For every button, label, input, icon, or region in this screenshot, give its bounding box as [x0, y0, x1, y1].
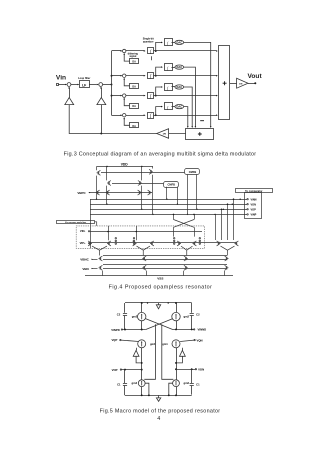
- svg-text:LF: LF: [82, 84, 86, 88]
- summer S2: [99, 83, 103, 87]
- adder A2 (feedback summation): [186, 129, 214, 140]
- wire node VOP: [122, 369, 142, 371]
- wire integrator I4 to adder: [154, 115, 217, 117]
- wire VBNC gate bus: [92, 259, 98, 261]
- wire adder A2 to feedback gain: [169, 133, 186, 135]
- svg-text:VDD: VDD: [121, 162, 129, 166]
- dither DAC box branch 4: [130, 123, 139, 128]
- node VON: [247, 204, 248, 205]
- node VINP: [247, 214, 248, 215]
- svg-text:VINP: VINP: [251, 214, 257, 217]
- ground: [158, 395, 160, 398]
- input terminal: [57, 84, 59, 86]
- svg-text:VQN: VQN: [196, 338, 202, 342]
- wire C2 left to node VINPD: [124, 316, 126, 330]
- junction rail left column: [141, 302, 143, 304]
- svg-text:1/N: 1/N: [163, 134, 167, 136]
- wire up to quantizer Q4: [156, 107, 162, 116]
- wire integrator I1 to adder: [154, 50, 217, 52]
- transconductor gm2 top-right: [172, 312, 180, 320]
- summer S1: [67, 83, 71, 87]
- wire column 4 to VSS: [224, 271, 226, 276]
- node VINND terminal: [194, 329, 195, 330]
- transconductor gm2 top-left: [138, 312, 146, 320]
- capacitor C2 left: [123, 313, 127, 315]
- wire cross couple leg A: [146, 319, 173, 330]
- wire rail to gm2 left: [141, 303, 143, 312]
- supply symbol: [158, 303, 160, 305]
- svg-text:CMFB: CMFB: [189, 170, 197, 174]
- wire VQP to gm1 left: [121, 340, 139, 341]
- gate contacts cross pair left: [173, 237, 175, 239]
- wire column 2 to VSS: [146, 271, 148, 276]
- control arrow left: [133, 350, 139, 356]
- wire S1 to loop filter: [71, 84, 78, 86]
- junction after integrator I2: [155, 75, 157, 77]
- wire cross-couple X: [174, 220, 195, 228]
- wire rail to C2 left: [124, 303, 126, 313]
- wire bus to summer B1: [112, 50, 122, 52]
- quantizer Q1: [165, 39, 173, 46]
- CMFB block 1: [185, 169, 200, 175]
- wire input bus vertical: [111, 51, 113, 115]
- svg-text:Fig.5 Macro model of the propo: Fig.5 Macro model of the proposed resona…: [100, 408, 221, 414]
- svg-text:DAC: DAC: [176, 85, 182, 89]
- label minus sign of feedback adder: [200, 120, 204, 122]
- wire cross-couple left riser: [173, 214, 175, 219]
- wire bus to summer B4: [112, 115, 122, 117]
- power rail bottom: [125, 395, 192, 397]
- dither DAC box branch 2: [130, 84, 139, 89]
- junction VOP C1: [124, 369, 126, 371]
- gate contacts cross pair right: [199, 237, 201, 239]
- svg-text:quantizer: quantizer: [143, 41, 154, 44]
- transistor NMOS cascode column 2: [142, 256, 146, 261]
- transconductor gm2 bottom-right: [173, 380, 180, 387]
- summer B3: [123, 94, 126, 97]
- node Vout terminal: [254, 82, 256, 84]
- control arrow right: [180, 350, 186, 356]
- wire ladder row 1: [103, 255, 227, 257]
- svg-text:DA: DA: [132, 105, 136, 108]
- wire output bus VOP: [90, 209, 247, 211]
- wire dither to summer B2: [124, 79, 130, 86]
- junction rail bottom: [141, 394, 143, 396]
- wire tail pair P3: [181, 246, 193, 255]
- svg-text:VINN: VINN: [251, 198, 257, 201]
- wire rail to gm2 right: [176, 303, 178, 312]
- summer B1: [123, 49, 126, 52]
- junction bus right: [240, 199, 241, 200]
- wire bus left end down: [90, 199, 92, 248]
- junction left column: [141, 362, 143, 364]
- ellipsis below integrator I1: [151, 56, 153, 60]
- junction feedback branch: [100, 133, 102, 135]
- summer B4: [123, 114, 126, 117]
- transistor input pair P3 right: [193, 241, 197, 246]
- wire CMFB2 pin B down: [177, 187, 179, 204]
- wire up to quantizer Q1: [156, 42, 162, 51]
- junction right column: [175, 362, 177, 364]
- svg-text:Vin: Vin: [56, 75, 66, 82]
- wire CMFB1 pin B down: [196, 175, 198, 210]
- wire S2 to bus: [103, 84, 112, 86]
- wire gain to Vout: [248, 83, 255, 85]
- wire cascode leg 4: [152, 175, 154, 215]
- svg-text:gm2: gm2: [132, 381, 138, 385]
- svg-text:gm2: gm2: [184, 381, 190, 385]
- wire gm2 bottom-right second leg: [169, 383, 173, 395]
- transistor input pair P4 right: [235, 241, 239, 246]
- wire summer B1 to integrator: [126, 50, 145, 52]
- DAC D3: [175, 85, 184, 89]
- wire ladder row 2: [103, 259, 227, 261]
- wire summer B2 to integrator: [126, 75, 145, 77]
- wire cascode leg 2: [106, 186, 108, 205]
- gain 1/N: [237, 78, 248, 88]
- adder A1 (summation): [219, 46, 230, 120]
- transistor NMOS cascode column 1: [99, 256, 103, 261]
- transistor NMOS source column 1: [99, 265, 103, 270]
- svg-text:gm2: gm2: [184, 315, 190, 319]
- node VOP: [247, 209, 248, 210]
- wire C1 left to rail: [124, 386, 126, 396]
- quantizer Q4: [165, 103, 173, 110]
- quantizer Q3: [165, 84, 173, 91]
- transistor input pair P4 left: [217, 241, 221, 246]
- wire DAC D1 to summing feedback: [184, 42, 211, 127]
- bias label box (input common mode): [57, 221, 95, 224]
- transistor M2 (PMOS mirror right): [152, 167, 154, 169]
- DAC D1: [175, 40, 184, 44]
- wire gm2 bottom-right to rail: [176, 387, 178, 396]
- power rail VSS: [85, 275, 233, 277]
- svg-text:VIN-: VIN-: [80, 229, 85, 233]
- transistor M1 (PMOS mirror left): [96, 167, 98, 171]
- svg-text:Fig.4 Proposed opampless reson: Fig.4 Proposed opampless resonator: [109, 284, 213, 290]
- svg-text:CMFB: CMFB: [168, 182, 176, 186]
- svg-text:DA: DA: [132, 125, 136, 128]
- junction VINPD: [124, 329, 126, 331]
- wire bus to summer B2: [112, 75, 122, 77]
- wire VIN- distribution: [90, 231, 202, 233]
- svg-text:Vin common mode bias: Vin common mode bias: [65, 222, 86, 224]
- wire DAC F2 to summer S2: [101, 87, 103, 97]
- svg-text:gm1: gm1: [150, 342, 156, 346]
- transistor input pair P1 right: [107, 241, 111, 246]
- wire output bus VINP: [90, 214, 247, 216]
- capacitor C1 left: [124, 370, 126, 383]
- wire integrator I3 to adder: [154, 95, 217, 97]
- wire fold drop 1: [215, 214, 217, 240]
- dither DAC box branch 1: [130, 59, 139, 64]
- wire dither to summer B4: [124, 118, 130, 125]
- transistor NMOS cascode column 4: [225, 256, 229, 261]
- wire bias box right: [95, 222, 97, 226]
- wire feedback branch to DAC F2: [101, 105, 103, 134]
- transistor input pair P1 left: [88, 241, 92, 246]
- wire DAC D4 to summing feedback: [184, 107, 188, 127]
- wire summer B3 to integrator: [126, 95, 145, 97]
- svg-text:VSS: VSS: [157, 277, 163, 281]
- wire gm2 top-right to VINND: [176, 321, 178, 330]
- dither DAC box branch 3: [130, 104, 139, 109]
- transistor M5 (PMOS cascode): [96, 190, 100, 195]
- wire cascode leg 3: [141, 186, 143, 210]
- svg-text:DAC: DAC: [176, 65, 182, 69]
- wire DAC D3 to summing feedback: [184, 87, 193, 127]
- wire quantizer Q3 to DAC: [172, 86, 175, 88]
- junction rail inner: [147, 302, 148, 303]
- svg-text:C2: C2: [196, 312, 200, 316]
- DAC F2: [97, 98, 106, 105]
- transistor M6 (PMOS cascode): [106, 190, 110, 195]
- wire gm1 left down: [141, 348, 143, 380]
- wire quantizer Q1 to DAC: [172, 42, 175, 44]
- transistor input pair P2 left: [133, 241, 137, 246]
- wire control left to column: [136, 356, 142, 363]
- wire VBPC gate bus: [89, 192, 152, 194]
- capacitor C2 right: [190, 313, 194, 315]
- power rail VDD: [97, 166, 154, 168]
- wire node VINND: [172, 329, 193, 331]
- wire quantizer Q4 to DAC: [172, 106, 175, 108]
- svg-text:VOP: VOP: [112, 368, 118, 372]
- svg-text:VON: VON: [198, 368, 204, 372]
- wire fold drop 3: [227, 204, 229, 240]
- transistor NMOS source column 4: [225, 265, 229, 270]
- wire summer B4 to integrator: [126, 115, 145, 117]
- junction bus branch3: [111, 95, 113, 97]
- summer B2: [123, 74, 126, 77]
- junction VDD rail: [106, 166, 107, 167]
- loop filter LF: [80, 81, 90, 88]
- transistor M4 (PMOS row2 right): [141, 167, 143, 181]
- wire spine left: [144, 324, 155, 379]
- wire gm1 right down: [176, 348, 178, 380]
- svg-text:Fig.3 Conceptual diagram of an: Fig.3 Conceptual diagram of an averaging…: [64, 152, 257, 158]
- wire control right to column: [176, 356, 182, 363]
- quantizer Q2: [165, 64, 173, 71]
- wire cross-couple right drop: [194, 227, 196, 236]
- wire dither to summer B1: [124, 54, 130, 61]
- svg-text:DAC: DAC: [176, 41, 182, 45]
- node VQP terminal: [120, 339, 121, 340]
- svg-text:C1: C1: [117, 382, 121, 386]
- wire column 3 to VSS: [183, 271, 185, 276]
- transistor input pair P2 right: [150, 241, 154, 246]
- wire adder to gain: [230, 83, 236, 85]
- svg-text:signal: signal: [129, 55, 136, 58]
- integrator I1: [148, 48, 154, 54]
- wire column 1 to VSS: [102, 271, 104, 276]
- wire tail pair P2: [137, 246, 151, 255]
- junction bus-main: [111, 84, 113, 86]
- svg-text:4: 4: [157, 416, 160, 422]
- wire spine right: [162, 324, 174, 379]
- wire CMFB2 pin A down: [166, 187, 168, 199]
- wire gate row1 to CMFB1: [101, 172, 185, 174]
- integrator I3: [148, 93, 154, 99]
- wire Vin to summer S1: [58, 84, 66, 86]
- svg-text:Loop filter: Loop filter: [78, 77, 90, 80]
- power rail top: [125, 302, 192, 304]
- svg-text:VQP: VQP: [111, 338, 117, 342]
- wire VIP+ distribution: [90, 242, 236, 244]
- wire cascode leg 1: [96, 176, 98, 200]
- svg-text:C1: C1: [196, 383, 200, 387]
- node VOP terminal: [120, 369, 121, 370]
- svg-text:DAC: DAC: [176, 105, 182, 109]
- transistor input pair P3 left: [177, 241, 181, 246]
- wire DAC D2 to summing feedback: [184, 67, 196, 127]
- junction rail right column: [175, 302, 177, 304]
- transistor M7 (PMOS cascode): [138, 190, 142, 195]
- svg-text:VINND: VINND: [197, 328, 206, 332]
- wire LF to summer S2: [89, 84, 97, 86]
- junction bus branch2: [111, 75, 113, 77]
- svg-text:VINPD: VINPD: [111, 328, 120, 332]
- input section dashed box: [76, 226, 204, 248]
- wire left fold vertical 2: [136, 226, 138, 240]
- CMFB block 2: [164, 182, 179, 188]
- wire rail to C2 right: [191, 303, 193, 313]
- node VINPD terminal: [121, 329, 122, 330]
- junction after integrator I3: [155, 95, 157, 97]
- node VQN terminal: [194, 339, 195, 340]
- svg-text:VOP: VOP: [251, 208, 257, 211]
- wire gm1 right to VQN: [180, 340, 194, 341]
- svg-text:1/N: 1/N: [239, 83, 243, 85]
- transistor NMOS cascode column 3: [184, 256, 188, 261]
- capacitor C1 right: [191, 369, 193, 383]
- transconductor gm2 bottom-left: [138, 380, 145, 387]
- svg-text:VIP+: VIP+: [80, 241, 86, 245]
- transconductor gm1 left: [138, 340, 146, 348]
- integrator I2: [148, 73, 154, 79]
- wire VBN gate bus: [92, 268, 98, 270]
- wire quantizer Q2 to DAC: [172, 67, 175, 69]
- svg-text:DA: DA: [132, 61, 136, 64]
- transconductor gm1 right: [172, 340, 180, 348]
- junction after integrator I1: [155, 50, 157, 52]
- wire dither to summer B3: [124, 98, 130, 105]
- wire cross-couple right riser: [194, 214, 196, 219]
- wire ladder row 4: [103, 268, 227, 270]
- wire integrator I2 to adder: [154, 75, 217, 77]
- DAC D4: [175, 105, 184, 109]
- transistor NMOS source column 2: [142, 265, 146, 270]
- wire gm2 bottom-left to rail: [141, 387, 143, 396]
- wire DAC F1 to summer S1: [69, 87, 71, 97]
- wire feedback to DACs: [69, 105, 157, 134]
- svg-text:VBPC: VBPC: [77, 191, 86, 195]
- label box To comparator: [236, 189, 273, 193]
- wire left fold vertical 1: [108, 226, 110, 240]
- svg-text:VBN: VBN: [82, 267, 88, 271]
- gate contacts column 2: [133, 237, 135, 239]
- wire node VINPD: [123, 329, 146, 331]
- node VON terminal: [195, 369, 196, 370]
- wire CMFB1 pin A down: [187, 175, 189, 215]
- wire C2 right to node VINND: [191, 316, 193, 330]
- output terminal box: [245, 193, 262, 219]
- wire up to quantizer Q3: [156, 87, 162, 96]
- wire cross couple leg B: [146, 319, 173, 330]
- wire bus to summer B3: [112, 95, 122, 97]
- feedback gain 1/N: [157, 129, 169, 139]
- svg-text:gm2: gm2: [132, 315, 138, 319]
- gate contacts column 1: [115, 237, 117, 239]
- svg-text:VBNC: VBNC: [80, 258, 89, 262]
- wire gate row2 to CMFB2: [112, 183, 164, 185]
- wire up to quantizer Q2: [156, 67, 162, 76]
- svg-text:DA: DA: [132, 85, 136, 88]
- wire cross-couple left drop: [173, 227, 175, 236]
- wire fold drop 2: [221, 209, 223, 240]
- wire tail pair P4: [221, 246, 235, 255]
- svg-text:C2: C2: [117, 312, 121, 316]
- wire gm2 top-left to VINPD: [141, 321, 143, 330]
- wire tail pair P1: [92, 246, 107, 255]
- wire fold drop 4: [233, 199, 235, 240]
- svg-text:gm1: gm1: [162, 342, 168, 346]
- transistor M3 (PMOS row2 left): [106, 167, 108, 181]
- wire gm2 bottom-left second leg: [145, 383, 149, 395]
- node VINN: [247, 199, 248, 200]
- DAC F1: [65, 98, 74, 105]
- svg-text:Vout: Vout: [248, 73, 263, 80]
- junction VINND: [191, 328, 193, 330]
- wire output bus VINN: [90, 199, 247, 201]
- svg-text:VON: VON: [251, 203, 257, 206]
- junction VON C1: [191, 368, 193, 370]
- wire C1 right to rail: [191, 386, 193, 395]
- transistor M8 (PMOS cascode): [148, 190, 152, 195]
- wire node VON: [176, 369, 195, 371]
- transistor NMOS source column 3: [184, 265, 188, 270]
- wire ladder row 3: [103, 264, 227, 266]
- integrator I4: [148, 113, 154, 119]
- DAC D2: [175, 65, 184, 69]
- junction after integrator I4: [155, 114, 157, 116]
- wire output bus VON: [90, 204, 247, 206]
